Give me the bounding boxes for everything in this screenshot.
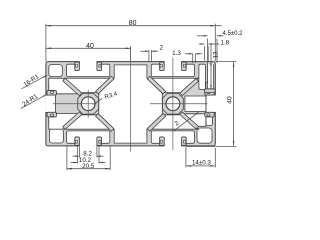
left slot opening bottom edge bbox=[46, 111, 50, 113]
top slot 1 opening right edge bbox=[96, 61, 98, 65]
dimension 1.3 (wall) bbox=[192, 54, 194, 63]
vertical centerline of profile bbox=[130, 47, 132, 152]
left hole boss octagon bbox=[78, 93, 99, 114]
horizontal centerline left hole bbox=[53, 103, 97, 105]
web left boss NE bbox=[96, 76, 114, 94]
chamber N of right boss bbox=[148, 78, 198, 92]
slot lip hook bbox=[182, 137, 187, 146]
right face T-slot cavity bbox=[206, 82, 212, 125]
svg-text:14±0.3: 14±0.3 bbox=[192, 160, 211, 167]
svg-text:40: 40 bbox=[227, 96, 234, 104]
svg-text:80: 80 bbox=[129, 20, 137, 27]
slot lip hook bbox=[182, 62, 187, 71]
top T-slot 1 cavity bbox=[67, 64, 110, 76]
label 24-R1 bbox=[21, 95, 47, 109]
right slot lower lip hook bbox=[205, 112, 214, 117]
center hole left (R3.4) bbox=[81, 97, 95, 111]
web right boss NE bbox=[180, 79, 198, 96]
dimension 40 (overall height) bbox=[216, 61, 237, 63]
horizontal centerline right hole bbox=[150, 103, 208, 105]
web right boss SE bbox=[180, 112, 198, 129]
dimension 40 (to center) bbox=[130, 47, 132, 62]
chamber SW of left boss bbox=[49, 114, 78, 130]
slot lip hook bbox=[97, 62, 102, 71]
dimension 1.8 (groove wall) bbox=[203, 46, 205, 61]
top T-slot 2 cavity bbox=[151, 64, 194, 76]
panel groove bottom wall bbox=[204, 89, 215, 93]
bottom slot 2 opening left edge bbox=[163, 143, 165, 147]
chamber left of panel groove bbox=[199, 64, 206, 89]
label 16-R1 bbox=[22, 75, 48, 89]
label R3.4 bbox=[94, 99, 103, 105]
svg-text:1.8: 1.8 bbox=[220, 39, 229, 46]
chamber N of left boss bbox=[65, 78, 114, 92]
right slot upper lip hook bbox=[205, 90, 214, 95]
bottom T-slot 2 cavity bbox=[151, 131, 194, 143]
right hole boss octagon bbox=[163, 93, 184, 114]
slot lip hook bbox=[75, 137, 80, 146]
web left boss NW bbox=[63, 78, 82, 95]
label 2 (web thickness) bbox=[174, 112, 199, 131]
panel groove left wall bbox=[207, 64, 209, 89]
chamber NW of left boss bbox=[49, 78, 78, 94]
svg-text:40: 40 bbox=[86, 43, 94, 50]
panel groove right wall bbox=[213, 64, 215, 89]
closed corner cavity bottom-right bbox=[197, 128, 212, 143]
left slot upper lip hook bbox=[47, 90, 56, 95]
right slot opening bottom edge bbox=[212, 111, 216, 113]
central chamber bbox=[99, 65, 163, 143]
dimension 8.2 (slot opening) bbox=[78, 147, 80, 158]
slot lip hook bbox=[160, 137, 165, 146]
dimension 2 (rib) bbox=[148, 50, 150, 62]
closed corner cavity top-left bbox=[49, 65, 63, 77]
svg-text:2: 2 bbox=[160, 45, 164, 52]
profile body: 40x80 aluminium extrusion cross-section bbox=[46, 62, 215, 146]
web left boss SW bbox=[63, 112, 82, 129]
dimension 4.5±0.2 (groove width) bbox=[207, 39, 209, 65]
left face T-slot cavity bbox=[49, 82, 56, 125]
vertical centerline right hole bbox=[172, 58, 174, 151]
web right boss SW bbox=[147, 114, 165, 132]
bottom slot 1 opening right edge bbox=[96, 143, 98, 147]
top slot 2 opening left edge bbox=[163, 61, 165, 65]
web left boss SE bbox=[96, 114, 114, 132]
web right boss NW bbox=[147, 76, 165, 94]
top slot 1 opening left edge bbox=[78, 61, 80, 65]
svg-text:20.5: 20.5 bbox=[82, 163, 95, 170]
slot lip hook bbox=[160, 62, 165, 71]
dimension 10.2 (slot throat) bbox=[76, 147, 78, 164]
dimension 14±0.3 bbox=[185, 147, 187, 168]
slot lip hook bbox=[97, 137, 102, 146]
center hole right (R3.4) bbox=[166, 97, 180, 111]
chamber S of right boss bbox=[148, 115, 198, 129]
left slot lower lip hook bbox=[47, 112, 56, 117]
dimension 13 (groove depth) bbox=[210, 45, 212, 90]
vertical centerline left hole bbox=[87, 90, 89, 118]
panel groove bottom bbox=[208, 88, 214, 90]
right slot opening top edge bbox=[212, 94, 216, 96]
bottom slot 2 opening right edge bbox=[181, 143, 183, 147]
svg-text:1.3: 1.3 bbox=[172, 50, 181, 57]
top slot 2 opening right edge bbox=[181, 61, 183, 65]
bottom slot 1 opening left edge bbox=[78, 143, 80, 147]
chamber E of right boss bbox=[185, 96, 206, 111]
svg-text:13: 13 bbox=[212, 51, 219, 58]
left slot opening top edge bbox=[46, 94, 50, 96]
chamber SE of right boss bbox=[184, 114, 206, 127]
dimension 80 (overall width) bbox=[45, 24, 47, 62]
closed corner cavity bottom-left bbox=[49, 129, 63, 143]
slot lip hook bbox=[75, 62, 80, 71]
svg-text:4.5±0.2: 4.5±0.2 bbox=[223, 31, 244, 37]
bottom T-slot 1 cavity bbox=[67, 131, 110, 143]
dimension 20.5 (slot cavity width) bbox=[66, 147, 68, 171]
chamber S of left boss bbox=[65, 115, 114, 129]
